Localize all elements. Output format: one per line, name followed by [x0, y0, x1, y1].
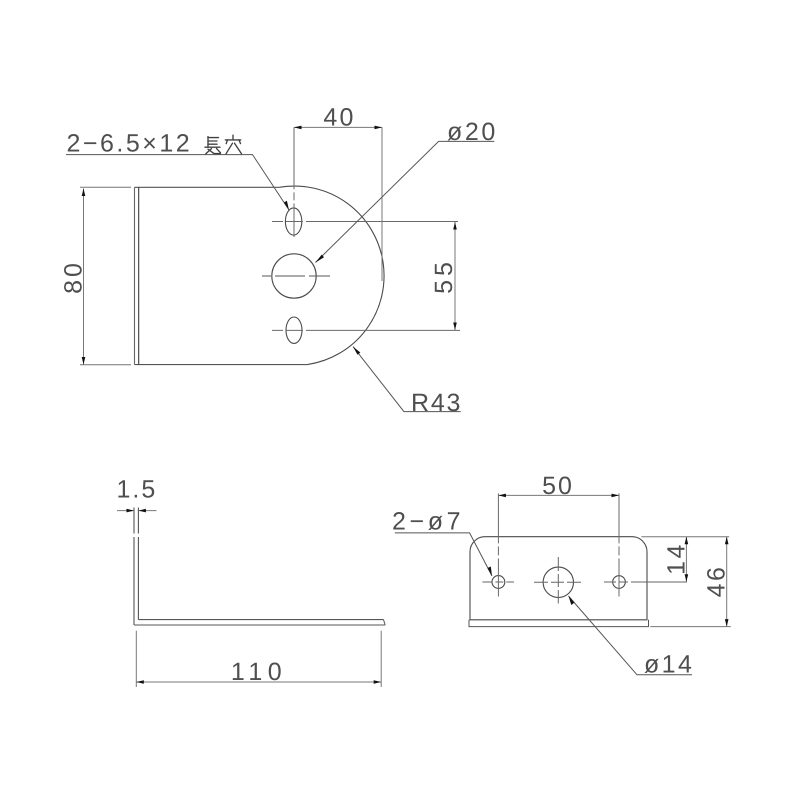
- end cap right: [384, 620, 386, 625]
- svg-text:14: 14: [663, 542, 691, 575]
- svg-text:80: 80: [60, 260, 88, 294]
- dimension 40: [294, 104, 382, 282]
- plate R43 arc: [280, 186, 384, 364]
- bend strip under plate: [469, 620, 649, 627]
- flange plate outline: [470, 537, 647, 620]
- dimension 110: [136, 631, 381, 687]
- dimension 55: [430, 222, 458, 330]
- dimension 80: [60, 187, 132, 364]
- plate outline bottom edge: [135, 364, 309, 366]
- svg-text:1.5: 1.5: [117, 476, 158, 504]
- label R43 with leader: [353, 347, 462, 417]
- vertical leg inner line: [137, 508, 139, 620]
- svg-text:2−ø7: 2−ø7: [392, 508, 464, 536]
- hole phi20: [272, 254, 316, 298]
- label 2-6.5x12 slot with leader: [66, 130, 289, 211]
- right hole phi7: [613, 576, 626, 589]
- svg-text:40: 40: [323, 104, 355, 132]
- svg-text:R43: R43: [411, 389, 462, 417]
- svg-text:ø14: ø14: [644, 651, 694, 679]
- dimension 50: [498, 472, 619, 500]
- label phi20 with leader: [316, 118, 498, 263]
- svg-text:2−6.5×12: 2−6.5×12: [67, 130, 193, 158]
- center line / extension left hole vertical: [497, 493, 499, 596]
- kanji 穴 (ana): [225, 135, 241, 154]
- bottom slot 6.5x12: [286, 317, 302, 343]
- horizontal leg inner line: [138, 619, 383, 621]
- vertical leg outer line: [133, 508, 135, 626]
- dimension 14: [641, 537, 729, 582]
- left hole phi7: [492, 576, 505, 589]
- center line left hole horizontal: [482, 581, 514, 583]
- center line middle hole vertical: [557, 557, 559, 604]
- center line of top slot (extends to 55 dim): [272, 221, 458, 223]
- kanji 長 (naga): [205, 137, 221, 154]
- svg-text:110: 110: [231, 658, 287, 686]
- svg-text:ø20: ø20: [447, 118, 498, 146]
- svg-text:50: 50: [542, 472, 574, 500]
- center line / extension right hole vertical: [618, 493, 620, 596]
- center line right hole horizontal (extends to 14 dim): [604, 581, 687, 583]
- label 2-phi7 with leader: [392, 508, 492, 577]
- dimension 46: [650, 537, 731, 627]
- top slot 6.5x12: [285, 208, 301, 235]
- plate bend line (left inner edge): [138, 187, 140, 364]
- center line of phi20 hole: [262, 275, 330, 277]
- dimension 1.5: [117, 476, 158, 513]
- center line middle hole horizontal: [534, 581, 581, 583]
- svg-text:55: 55: [430, 258, 458, 294]
- center hole phi14: [543, 567, 573, 597]
- horizontal leg outer line: [134, 624, 385, 626]
- vertical center line through top slot (40 dim left extension): [293, 127, 295, 237]
- label phi14 with leader: [569, 596, 695, 679]
- svg-text:46: 46: [703, 565, 731, 598]
- center line of bottom slot (extends to 55 dim): [272, 329, 460, 331]
- plate left outer edge: [134, 187, 136, 364]
- plate outline top edge: [135, 186, 281, 188]
